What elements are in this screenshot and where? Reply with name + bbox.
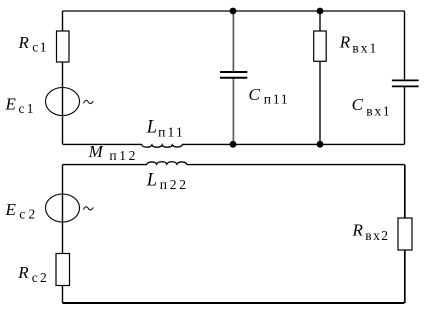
label C_вх1 [352, 95, 392, 119]
wire middle vertical at x=320 (Rвх1 branch) [319, 11, 321, 144]
svg-text:вх1: вх1 [352, 41, 378, 56]
source E_c2 (AC) [46, 194, 94, 222]
wire right vertical of circuit 2 [404, 165, 406, 303]
resistor R_c2 body [56, 254, 70, 286]
label R_c1 [18, 33, 48, 55]
node junction bottom of Rвх1 branch [317, 141, 324, 148]
label E_c1 [5, 95, 36, 116]
svg-text:с1: с1 [19, 101, 36, 116]
wire middle vertical at x=233 (Cп11 branch) [232, 11, 234, 144]
resistor R_вх2 body [398, 218, 412, 250]
svg-text:E: E [5, 200, 17, 219]
capacitor C_п11 plates [220, 72, 247, 78]
svg-text:R: R [339, 32, 351, 51]
label L_п11 [146, 118, 185, 140]
svg-text:с1: с1 [32, 40, 48, 55]
label R_c2 [17, 263, 49, 285]
resistor R_вх1 body [314, 31, 327, 61]
svg-text:R: R [17, 263, 29, 282]
svg-text:R: R [18, 33, 30, 52]
svg-text:R: R [352, 220, 364, 239]
node junction bottom of Cп11 branch [230, 141, 237, 148]
label E_c2 [5, 200, 39, 221]
wire left vertical of circuit 2 [62, 165, 64, 303]
wire left vertical of circuit 1 [62, 11, 64, 144]
svg-text:E: E [5, 95, 17, 114]
svg-text:п11: п11 [158, 125, 185, 140]
svg-text:с2: с2 [32, 270, 49, 285]
svg-text:M: M [88, 142, 104, 161]
label M_п12 (mutual inductance) [88, 142, 138, 163]
wire right vertical of circuit 1 (interrupted by Cвх1) [404, 11, 406, 144]
node junction top of Cп11 branch [230, 8, 237, 15]
svg-text:вх1: вх1 [366, 104, 391, 119]
label R_вх2 [352, 220, 390, 242]
label C_п11 [249, 85, 290, 107]
wire top horizontal of circuit 1 [63, 10, 405, 12]
svg-text:L: L [146, 170, 157, 190]
source E_c1 (AC) [46, 88, 94, 116]
wire bottom horizontal of circuit 1 with inductor Lп11 [63, 144, 405, 147]
wire top horizontal of circuit 2 with inductor Lп22 [63, 162, 405, 165]
node junction top of Rвх1 branch [317, 8, 324, 15]
resistor R_c1 body [57, 31, 70, 62]
svg-text:вх2: вх2 [365, 228, 389, 243]
svg-text:п12: п12 [109, 148, 138, 163]
label L_п22 [146, 170, 189, 192]
capacitor C_вх1 plates [392, 80, 419, 86]
label R_вх1 [339, 32, 378, 55]
svg-text:L: L [146, 118, 157, 138]
svg-text:п11: п11 [264, 92, 290, 107]
wire bottom horizontal of circuit 2 [63, 302, 405, 304]
svg-text:п22: п22 [160, 177, 189, 192]
svg-text:C: C [249, 85, 261, 104]
svg-text:с2: с2 [19, 206, 38, 221]
svg-text:C: C [352, 95, 364, 114]
